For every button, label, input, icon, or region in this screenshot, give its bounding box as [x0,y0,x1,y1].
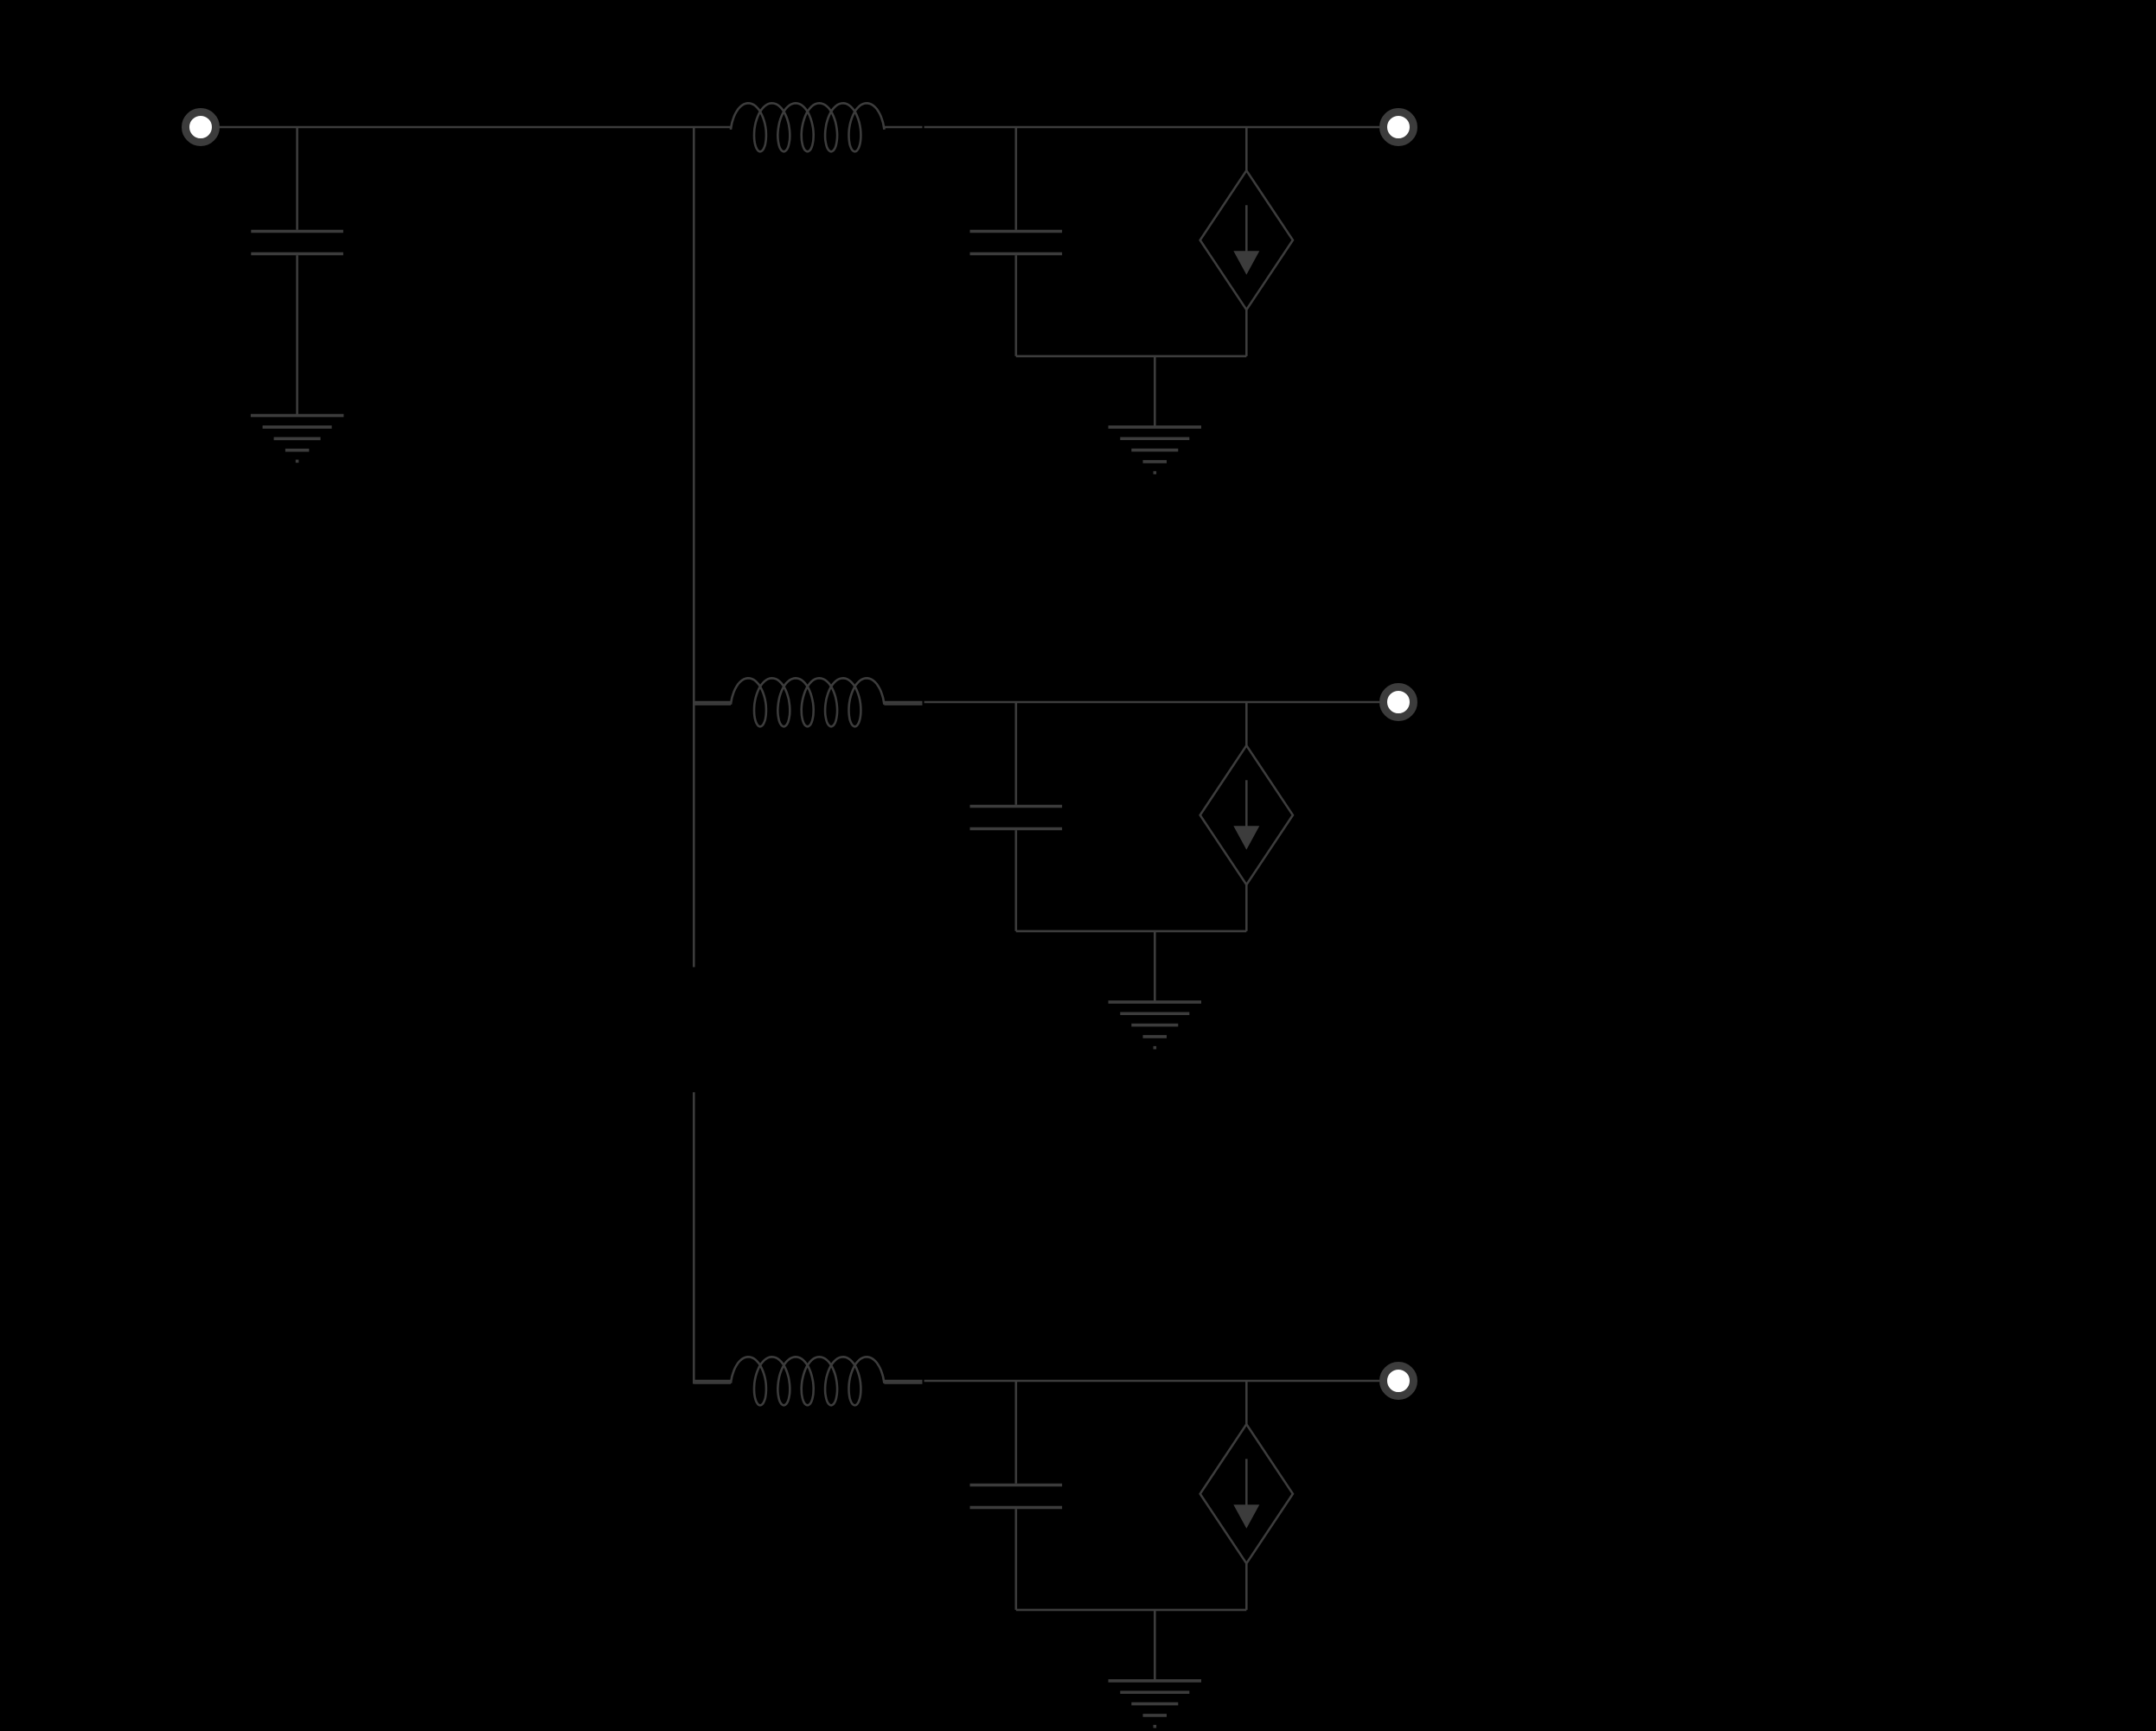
wire bottom rail [1016,1609,1247,1612]
wire lead stub [884,703,922,706]
wire lead stub [884,1382,922,1384]
wire [884,1380,922,1383]
wire trunk upper [693,127,695,968]
wire [694,701,731,704]
wire [924,126,1379,129]
wire [924,1380,1379,1383]
controlled current source S1 [1200,127,1293,356]
capacitor C4 [970,1381,1063,1610]
wire lead stub [694,703,731,706]
wire bottom rail [1016,930,1247,933]
wire bottom rail [1016,355,1247,358]
wire [924,701,1379,704]
wire input [216,126,732,129]
controlled current source S2 [1200,702,1293,931]
capacitor C3 [970,702,1063,931]
wire [884,701,922,704]
capacitor C1 [251,127,343,416]
wire trunk lower [693,1092,695,1383]
inductor L1 [731,103,884,151]
wire lead stub [694,1382,731,1384]
ground [1109,356,1202,473]
port P3 [1384,687,1414,718]
controlled current source S3 [1200,1381,1293,1610]
inductor L2 [731,678,884,726]
ground [1109,1610,1202,1727]
port P1 [186,112,216,143]
ground G1a [251,416,344,462]
ground [1109,931,1202,1048]
wire [694,1380,731,1383]
port P2 [1384,112,1414,143]
port P4 [1384,1366,1414,1396]
inductor L3 [731,1357,884,1405]
capacitor C2 [970,127,1063,356]
wire [884,126,922,129]
